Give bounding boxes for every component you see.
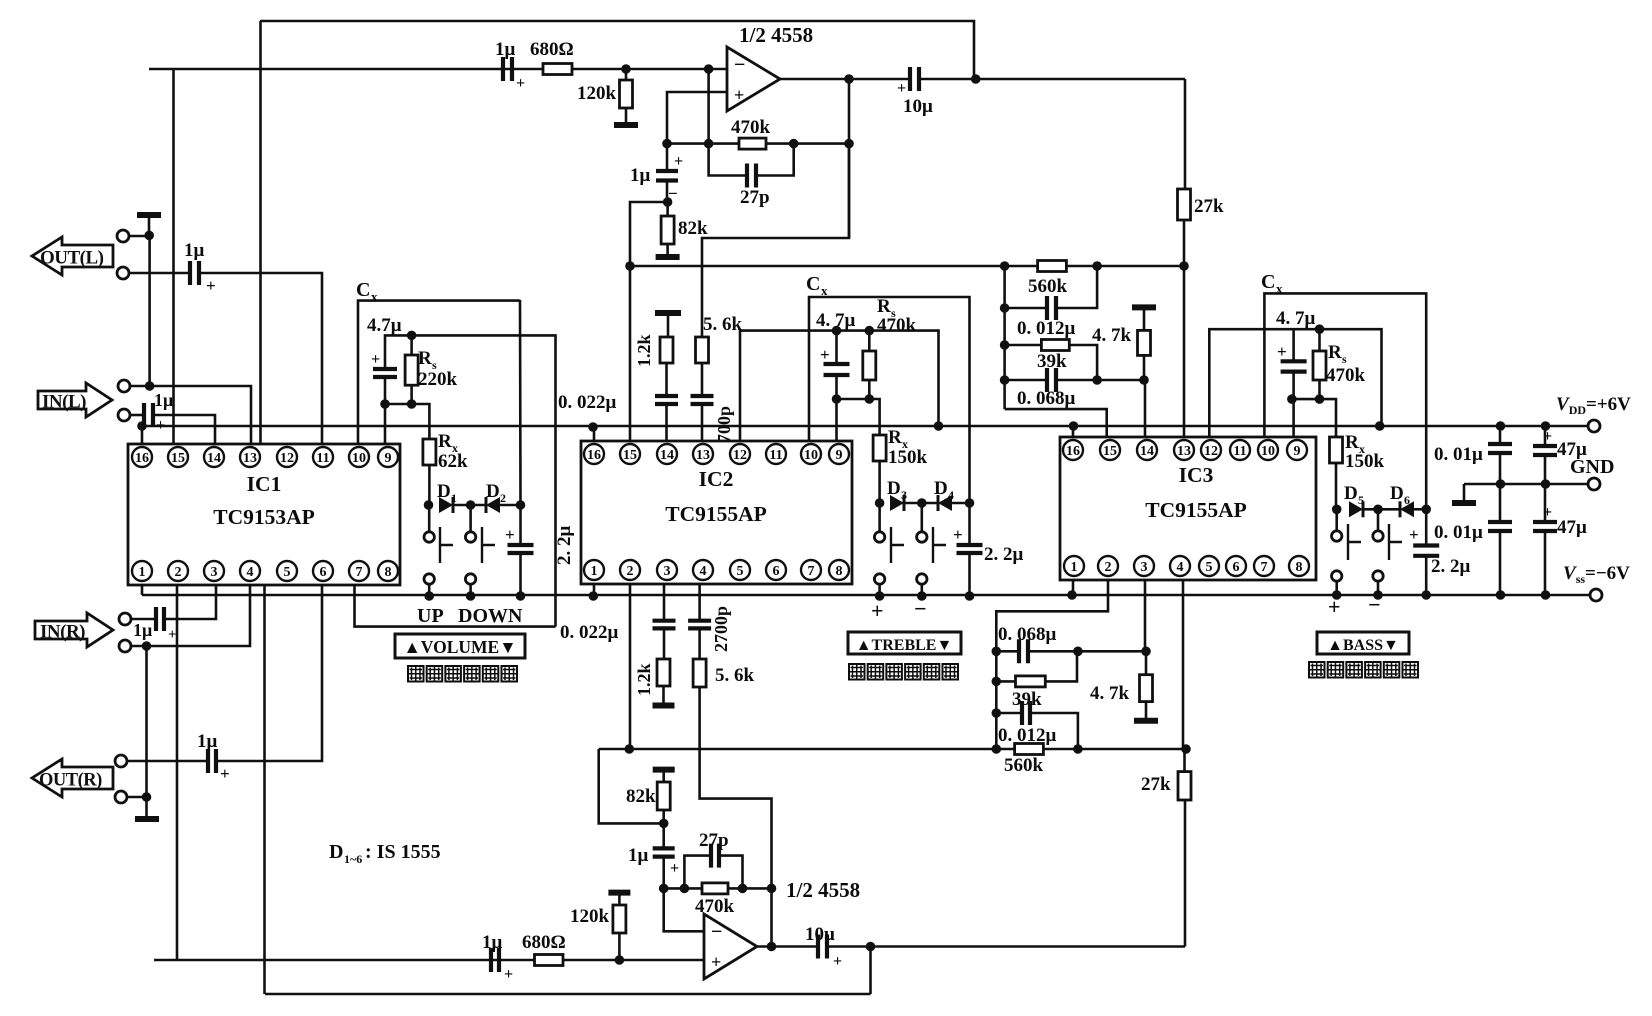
wire Cx loop IC3	[1264, 293, 1426, 509]
wire IC2 pin4 drop	[698, 584, 701, 621]
switch UP	[428, 505, 431, 532]
svg-text:OUT(R): OUT(R)	[39, 771, 102, 791]
wire node to pin15 drop	[630, 202, 668, 441]
opamp U4 bottom half 4558	[704, 914, 757, 979]
wire top line drop to IC1 pin13	[259, 21, 262, 444]
svg-text:−: −	[734, 54, 745, 76]
switch treble down	[920, 503, 923, 532]
terminal OUT(L) hot	[117, 230, 129, 242]
ground bar 1.2k chain	[655, 310, 681, 316]
opamp U2 top half 4558	[727, 47, 780, 111]
wire IC2 pin1 to VSS	[593, 584, 596, 595]
svg-text:14: 14	[660, 448, 674, 463]
svg-text:1/2 4558: 1/2 4558	[739, 23, 813, 47]
svg-text:120k: 120k	[577, 83, 617, 104]
resistor 470k bottom	[702, 883, 728, 894]
wire 5.6k lower to fb corner	[700, 687, 772, 947]
node 120k bottom	[615, 955, 625, 965]
resistor 120k top	[625, 69, 628, 80]
pin 5 IC2	[730, 560, 750, 580]
wire 10u bottom to right	[827, 945, 1185, 948]
terminal IN(L) hot	[118, 380, 130, 392]
wire IN(L) top to pin13	[129, 386, 251, 444]
node treble 2.2u top	[965, 498, 975, 508]
node fb right	[844, 139, 854, 149]
svg-text:TC9153AP: TC9153AP	[213, 505, 315, 529]
wire 1u to 82k node	[666, 181, 669, 203]
svg-text:1.2k: 1.2k	[634, 663, 654, 696]
capacitor 0.068u upper	[1005, 379, 1047, 382]
svg-text:10: 10	[1261, 444, 1275, 459]
pin 9 IC2	[829, 444, 849, 464]
pin 10 IC3	[1258, 440, 1278, 460]
pin 14 IC1	[204, 447, 224, 467]
svg-text:4: 4	[247, 565, 254, 580]
pin 16 IC3	[1063, 440, 1083, 460]
node mid line left	[625, 261, 635, 271]
wire IN(L) low to cap	[129, 414, 144, 417]
svg-text:C: C	[1261, 271, 1275, 293]
ground symbol GND rail	[1463, 484, 1466, 501]
pin 5 IC3	[1199, 556, 1219, 576]
label VOLUME box	[395, 634, 525, 658]
svg-text:x: x	[821, 283, 828, 298]
terminal VSS	[1590, 589, 1602, 601]
pin 15 IC1	[168, 447, 188, 467]
svg-text:62k: 62k	[438, 451, 468, 472]
wire IN(R) low to pin4	[130, 585, 250, 646]
svg-text:+: +	[206, 276, 216, 295]
svg-text:8: 8	[1296, 560, 1303, 575]
wire D4 to Cx leg IC2	[952, 502, 970, 505]
wire 1u to fb node	[662, 857, 665, 889]
svg-text:150k: 150k	[1345, 451, 1385, 472]
svg-text:D: D	[934, 478, 948, 499]
wire top feedback line	[260, 21, 974, 79]
wire 560k line left leg	[599, 749, 664, 823]
switch DOWN	[469, 505, 472, 532]
svg-text:4. 7k: 4. 7k	[1092, 325, 1132, 346]
node 39k lower left	[992, 677, 1002, 687]
svg-text:470k: 470k	[695, 896, 735, 917]
wire IC2 pin2 drop	[629, 584, 632, 749]
svg-text:+: +	[1328, 594, 1341, 619]
svg-text:39k: 39k	[1037, 351, 1067, 372]
capacitor 10u bottom	[818, 935, 827, 959]
svg-text:6: 6	[773, 564, 780, 579]
svg-text:9: 9	[1294, 444, 1301, 459]
svg-text:10μ: 10μ	[805, 924, 835, 945]
svg-text:12: 12	[733, 448, 747, 463]
wire IC1 pin2 to bottom line	[176, 585, 179, 960]
svg-text:6: 6	[320, 565, 327, 580]
diode D3	[890, 495, 904, 511]
svg-text:13: 13	[243, 451, 257, 466]
wire 4.7u wire IC2	[740, 331, 939, 441]
svg-text:C: C	[806, 273, 820, 295]
node IC3 pin1 VSS	[1067, 590, 1077, 600]
pin 3 IC1	[204, 561, 224, 581]
svg-text:10: 10	[804, 448, 818, 463]
svg-text:15: 15	[171, 451, 185, 466]
capacitor 10u top	[910, 67, 919, 91]
pin 7 IC3	[1254, 556, 1274, 576]
wire -input drop	[707, 69, 710, 144]
svg-text:11: 11	[316, 451, 329, 466]
capacitor 1u feedback top	[666, 144, 669, 171]
svg-text:1μ: 1μ	[154, 390, 173, 410]
wire OUT(L) top to junction	[128, 235, 150, 238]
node IN(R) junction	[142, 641, 152, 651]
svg-text:10: 10	[352, 451, 366, 466]
svg-text:27k: 27k	[1194, 196, 1224, 217]
wire pin9 drop IC1	[384, 404, 387, 444]
wire OUT(R) gnd link	[126, 796, 147, 799]
svg-text:1μ: 1μ	[482, 932, 503, 953]
pin 9 IC3	[1287, 440, 1307, 460]
svg-text:3: 3	[901, 488, 907, 502]
node 82k top	[663, 197, 673, 207]
diode D1	[439, 497, 453, 513]
svg-text:2: 2	[500, 491, 506, 505]
IC U5 TC9155AP body IC3	[1060, 437, 1316, 580]
svg-text:8: 8	[836, 564, 843, 579]
ground bar 120k bottom	[608, 890, 630, 896]
svg-text:560k: 560k	[1004, 755, 1044, 776]
capacitor 4.7u IC2	[835, 331, 838, 364]
svg-text:: IS 1555: : IS 1555	[365, 841, 441, 863]
wire D5 to D6	[1363, 508, 1400, 511]
node 0.068u left	[1000, 375, 1010, 385]
wire 4.7u bottom stub IC1	[384, 377, 387, 404]
wire pin7 link line	[355, 585, 556, 627]
svg-text:11: 11	[769, 448, 782, 463]
resistor 1.2k upper	[660, 337, 673, 363]
svg-text:▲BASS▼: ▲BASS▼	[1327, 637, 1399, 654]
resistor 560k upper	[1038, 261, 1067, 272]
wire output down to feedback	[848, 79, 851, 238]
resistor 82k top	[666, 202, 669, 216]
pin 8 IC2	[829, 560, 849, 580]
node UP switch top	[466, 500, 476, 510]
svg-text:1μ: 1μ	[630, 165, 651, 186]
svg-text:GND: GND	[1570, 456, 1614, 478]
svg-text:+: +	[371, 351, 380, 368]
svg-text:R: R	[888, 427, 902, 448]
svg-text:7: 7	[808, 564, 815, 579]
capacitor 2700p upper	[691, 396, 714, 404]
svg-text:9: 9	[836, 448, 843, 463]
node 470k right bottom	[738, 884, 748, 894]
svg-text:0. 022μ: 0. 022μ	[560, 622, 619, 643]
svg-text:+: +	[674, 153, 683, 170]
capacitor 4.7u IC3	[1292, 329, 1295, 361]
svg-text:4. 7μ: 4. 7μ	[1276, 308, 1316, 329]
svg-text:D: D	[329, 841, 343, 863]
pin 6 IC2	[766, 560, 786, 580]
capacitor 1u OUT(R)	[208, 749, 216, 773]
pin 2 IC3	[1098, 556, 1118, 576]
wire Rx to D3	[878, 461, 881, 503]
svg-text:470k: 470k	[731, 117, 771, 138]
svg-text:IC1: IC1	[247, 472, 282, 496]
node 4.7u bottom IC1	[380, 399, 390, 409]
svg-text:+: +	[670, 860, 679, 877]
node fb 470k left	[704, 139, 714, 149]
svg-text:+: +	[156, 417, 165, 434]
wire 1.2k to 0.022u	[665, 363, 668, 396]
pin 13 IC3	[1174, 440, 1194, 460]
svg-text:1: 1	[591, 564, 598, 579]
svg-text:+: +	[897, 80, 906, 97]
capacitor 1u IN(R)	[156, 607, 164, 631]
svg-text:1μ: 1μ	[133, 620, 152, 640]
svg-text:C: C	[356, 279, 370, 301]
node 4.7u right leg VDD IC3	[1375, 421, 1385, 431]
pin 14 IC2	[657, 444, 677, 464]
wire D6 to Cx leg IC3	[1414, 508, 1426, 511]
svg-text:R: R	[418, 348, 432, 369]
wire vertical x173 to IC1 pin15	[172, 69, 175, 444]
svg-text:0. 01μ: 0. 01μ	[1434, 522, 1483, 543]
pin 9 IC1	[378, 447, 398, 467]
wire bass bus	[1003, 266, 1006, 409]
svg-text:1.2k: 1.2k	[634, 334, 654, 367]
svg-text:5: 5	[1358, 493, 1364, 507]
pin 15 IC2	[620, 444, 640, 464]
node IN(L) junction	[145, 381, 155, 391]
wire Cx loop IC1	[358, 301, 521, 505]
capacitor 27p top	[709, 144, 747, 176]
node top line junction	[971, 74, 981, 84]
resistor 4.7k upper	[1138, 330, 1151, 355]
node 470k right	[789, 139, 799, 149]
label volume chinese	[408, 666, 424, 682]
terminal IN(L) low	[118, 409, 130, 421]
wire bottom opamp output	[757, 945, 818, 948]
switch treble up	[878, 503, 881, 532]
resistor 5.6k lower	[693, 659, 706, 687]
svg-text:+: +	[516, 75, 525, 92]
terminal OUT(R) hot	[115, 755, 127, 767]
svg-text:D: D	[1344, 483, 1358, 504]
svg-text:2: 2	[175, 565, 182, 580]
svg-text:4: 4	[1177, 560, 1184, 575]
node treble mid	[917, 498, 927, 508]
wire 0.022u to 1.2k lower	[663, 628, 666, 659]
pin 6 IC1	[313, 561, 333, 581]
pin 7 IC2	[801, 560, 821, 580]
node 0.068u right	[1092, 375, 1102, 385]
diode D5	[1349, 501, 1363, 517]
resistor 560k lower	[1015, 744, 1044, 755]
wire junction down to return	[869, 947, 872, 995]
svg-text:4. 7k: 4. 7k	[1090, 683, 1130, 704]
pin 13 IC2	[693, 444, 713, 464]
node IC1 pin16 VDD	[137, 421, 147, 431]
wire IC3 pin16 to VDD	[1072, 426, 1075, 437]
wire GND rail	[1464, 483, 1594, 486]
wire IC3 pin4 drop	[1182, 580, 1185, 749]
wire IN(R) top to cap	[130, 618, 156, 621]
pin 1 IC3	[1064, 556, 1084, 576]
svg-text:+: +	[734, 85, 744, 105]
svg-text:R: R	[1328, 342, 1342, 363]
svg-text:1μ: 1μ	[495, 39, 516, 60]
node 0.068u lower right	[1141, 647, 1151, 657]
connector OUT(L) arrow	[32, 237, 113, 275]
pin 1 IC2	[584, 560, 604, 580]
resistor 4.7k lower	[1145, 651, 1148, 674]
node 4.7u top IC2	[832, 326, 842, 336]
pin 2 IC1	[168, 561, 188, 581]
capacitor 47u lower	[1544, 484, 1547, 522]
terminal VDD	[1588, 420, 1600, 432]
node 560k lower left	[992, 744, 1002, 754]
wire top opamp output	[780, 78, 910, 81]
diode D4	[938, 495, 952, 511]
wire bottom feedback return line	[265, 993, 871, 996]
pin 4 IC2	[693, 560, 713, 580]
node 27k to 560k line	[1179, 261, 1189, 271]
wire IN(R) junction down to OUT(R)	[145, 646, 148, 797]
pin 2 IC2	[620, 560, 640, 580]
resistor 120k bottom	[613, 905, 626, 933]
node 560k lower right	[1073, 744, 1083, 754]
svg-text:27p: 27p	[740, 187, 770, 208]
svg-text:16: 16	[135, 451, 149, 466]
svg-text:2. 2μ: 2. 2μ	[984, 544, 1024, 565]
svg-text:R: R	[438, 431, 452, 452]
svg-text:680Ω: 680Ω	[522, 932, 566, 953]
resistor 5.6k upper	[696, 337, 709, 363]
node 39k left	[1000, 340, 1010, 350]
node D1 anode	[424, 500, 434, 510]
svg-text:5: 5	[1206, 560, 1213, 575]
wire Rs to Rx IC3	[1292, 399, 1336, 437]
pin 10 IC1	[349, 447, 369, 467]
node bass bus top	[1000, 261, 1010, 271]
wire IC2 pin16 to VDD	[593, 426, 596, 441]
wire IN(L) cap to pin14	[153, 415, 215, 444]
svg-text:10μ: 10μ	[903, 96, 933, 117]
node D3 anode	[875, 498, 885, 508]
pin 3 IC2	[657, 560, 677, 580]
svg-text:680Ω: 680Ω	[530, 39, 574, 60]
svg-text:TC9155AP: TC9155AP	[1145, 498, 1247, 522]
pin 8 IC3	[1289, 556, 1309, 576]
svg-text:4: 4	[700, 564, 707, 579]
capacitor 0.012u lower	[996, 712, 1022, 715]
svg-text:15: 15	[623, 448, 637, 463]
capacitor 0.022u lower	[653, 621, 676, 629]
svg-text:4.7μ: 4.7μ	[367, 315, 402, 336]
svg-text:2: 2	[1105, 560, 1112, 575]
wire OUT(L) signal to cap	[128, 272, 190, 275]
svg-text:5: 5	[284, 565, 291, 580]
svg-text:82k: 82k	[626, 786, 656, 807]
svg-text:14: 14	[207, 451, 221, 466]
svg-text:1~6: 1~6	[344, 852, 362, 866]
svg-text:1: 1	[451, 491, 457, 505]
svg-text:0. 068μ: 0. 068μ	[998, 624, 1057, 645]
svg-text:x: x	[371, 289, 378, 304]
diode D6	[1400, 501, 1414, 517]
svg-text:D: D	[486, 481, 500, 502]
node D5 anode	[1332, 505, 1342, 515]
svg-text:1/2 4558: 1/2 4558	[786, 878, 860, 902]
svg-text:220k: 220k	[418, 369, 458, 390]
pin 4 IC1	[240, 561, 260, 581]
node pin2 on 560k line	[625, 744, 635, 754]
svg-text:560k: 560k	[1028, 276, 1068, 297]
label bass chinese	[1309, 662, 1325, 678]
capacitor 1u IN(L)	[144, 403, 153, 427]
connector OUT(R) arrow	[32, 759, 113, 797]
ground stub above OUT(L)	[148, 217, 151, 236]
svg-text:IC2: IC2	[699, 467, 734, 491]
resistor Rs 220k IC1	[410, 335, 413, 355]
wire VDD +6V rail	[140, 425, 1594, 428]
svg-text:IN(L): IN(L)	[42, 392, 86, 413]
node IC3 pin16 VDD	[1069, 421, 1079, 431]
wire right riser to 27k bottom	[1184, 800, 1187, 947]
svg-text:120k: 120k	[570, 906, 610, 927]
wire Cx loop IC2	[809, 297, 970, 503]
svg-text:2700p: 2700p	[711, 606, 731, 652]
IC U1 TC9153AP body	[128, 444, 400, 585]
capacitor 2700p lower	[688, 621, 711, 629]
wire 0.022u to pin14 IC2	[665, 404, 668, 441]
svg-text:0. 022μ: 0. 022μ	[558, 392, 617, 413]
svg-text:+: +	[168, 627, 177, 643]
wire IC2 pin3 drop	[663, 584, 666, 621]
svg-text:16: 16	[587, 448, 601, 463]
wire 2700p to pin13 IC2	[701, 404, 704, 441]
svg-text:27k: 27k	[1141, 774, 1171, 795]
capacitor 1u top input	[503, 57, 512, 81]
svg-text:+: +	[504, 966, 513, 983]
wire IC3 pin3 drop	[1144, 580, 1147, 651]
svg-text:7: 7	[1261, 560, 1268, 575]
pin 13 IC1	[240, 447, 260, 467]
svg-text:5. 6k: 5. 6k	[715, 665, 755, 686]
node 560k right	[1092, 261, 1102, 271]
pin 6 IC3	[1226, 556, 1246, 576]
svg-text:D: D	[1390, 483, 1404, 504]
svg-text:UP: UP	[417, 605, 444, 627]
diode D2	[486, 497, 500, 513]
capacitor 0.01u upper	[1499, 426, 1502, 444]
svg-text:R: R	[1345, 432, 1359, 453]
svg-text:2. 2μ: 2. 2μ	[554, 526, 575, 566]
resistor 27k bottom	[1178, 772, 1191, 800]
svg-text:VDD=+6V: VDD=+6V	[1556, 394, 1631, 417]
capacitor 0.01u lower	[1499, 484, 1502, 522]
pin 4 IC3	[1170, 556, 1190, 576]
svg-text:+: +	[1277, 342, 1287, 361]
capacitor 2.2u bass	[1425, 509, 1428, 545]
wire VSS -6V rail	[142, 594, 1596, 597]
svg-text:1: 1	[1071, 560, 1078, 575]
wire IC1 pin16 to VDD	[141, 426, 144, 444]
resistor 39k lower	[1016, 676, 1046, 687]
capacitor 0.022u upper	[655, 396, 678, 404]
wire Rx to D1	[428, 465, 431, 505]
svg-text:4: 4	[948, 488, 954, 502]
svg-text:R: R	[877, 296, 891, 317]
svg-text:+: +	[1409, 525, 1419, 544]
